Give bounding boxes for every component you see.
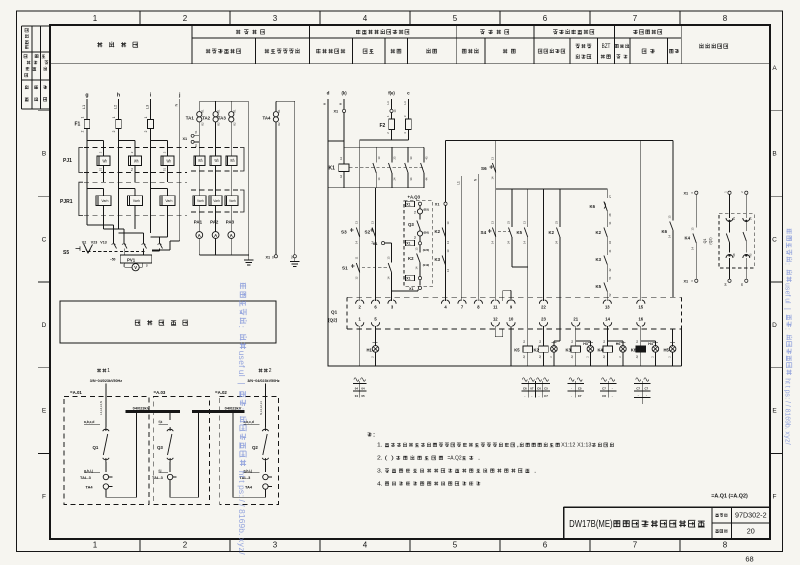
svg-text:5: 5 — [453, 14, 458, 23]
svg-text:16: 16 — [638, 316, 643, 321]
sampling meter Varh 1 — [193, 196, 206, 232]
indicator lamp H2 — [550, 343, 557, 366]
breaker terminal 5 bottom — [371, 316, 379, 326]
svg-text:C5: C5 — [578, 387, 582, 391]
svg-text:Q3: Q3 — [157, 445, 163, 450]
row tick marks right margin — [770, 111, 783, 454]
header cell 自动 — [426, 49, 436, 53]
svg-text:-: - — [524, 394, 525, 398]
svg-text:H5: H5 — [664, 347, 670, 352]
terminal X1 sampling — [183, 130, 200, 147]
S1 linkage dashed — [362, 266, 390, 268]
row tick marks left margin — [38, 111, 50, 454]
svg-text:A2: A2 — [339, 174, 343, 178]
breaker terminal 9 top — [507, 300, 515, 310]
column tick marks top strip — [140, 11, 680, 25]
svg-text:(E20): (E20) — [423, 248, 429, 252]
wires L1 N to terminals 7 8 — [457, 174, 479, 301]
label TA3 — [218, 116, 227, 121]
title cell 方案号 — [716, 529, 728, 532]
note 3 — [377, 468, 537, 474]
var-hour meter Varh phase 3 — [151, 189, 176, 230]
breaker terminal 13 top — [603, 300, 611, 310]
title value 20 — [747, 527, 755, 536]
svg-text:V23: V23 — [91, 241, 97, 245]
svg-text:-: - — [571, 394, 572, 398]
contact K1-1 — [373, 147, 381, 188]
svg-text:=A.01: =A.01 — [70, 390, 82, 395]
svg-text:K2: K2 — [277, 122, 281, 126]
relay coil K3 — [566, 339, 581, 366]
svg-text:K6: K6 — [590, 204, 596, 209]
svg-text:Wh: Wh — [166, 158, 171, 163]
svg-text:X1:13: X1:13 — [577, 443, 591, 449]
svg-text:04: 04 — [355, 394, 359, 398]
contact K1-3 — [405, 147, 413, 188]
svg-text:H3: H3 — [583, 342, 588, 346]
svg-text:3/N~04/023kV50Hz: 3/N~04/023kV50Hz — [90, 379, 122, 383]
sampling meter Varh 3 — [225, 196, 238, 232]
aux switch wire left — [723, 191, 736, 286]
svg-text:K3: K3 — [435, 257, 441, 262]
current circuit bottom bus — [199, 101, 248, 255]
label H4 — [648, 342, 653, 346]
svg-text:z: z — [237, 548, 247, 552]
breaker terminal 22 top — [539, 300, 547, 310]
svg-text:X1: X1 — [684, 191, 689, 195]
svg-text:68: 68 — [745, 555, 753, 564]
svg-text:f: f — [784, 294, 791, 296]
S5 linkage dashed — [82, 251, 145, 253]
svg-text:BZT: BZT — [602, 44, 611, 50]
svg-text:X1: X1 — [334, 110, 339, 114]
svg-text:B: B — [42, 151, 46, 158]
svg-text:X1: X1 — [406, 277, 410, 281]
svg-text:g,h,i,j: g,h,i,j — [84, 469, 93, 473]
sampling row2 dashed bracket — [191, 190, 244, 212]
wire to terminal 15 — [640, 140, 642, 301]
svg-text:(: ( — [385, 456, 388, 462]
busbar 2 04/023kV — [192, 405, 245, 411]
contact K1-4 — [421, 147, 429, 188]
header group 指示灯电路 — [633, 30, 662, 34]
terminal group C below K6 — [634, 378, 650, 404]
svg-text:K6: K6 — [662, 229, 668, 234]
svg-text:X1: X1 — [183, 137, 188, 141]
label 电源2 — [259, 368, 272, 374]
svg-text:L2: L2 — [112, 104, 117, 109]
svg-text:Wh: Wh — [134, 158, 139, 163]
svg-text:X1: X1 — [266, 255, 271, 259]
svg-text:t: t — [784, 386, 791, 388]
svg-text:51: 51 — [130, 168, 134, 172]
title block frame — [564, 507, 770, 539]
svg-text:Q1: Q1 — [331, 310, 338, 315]
svg-text:A: A — [214, 233, 217, 238]
svg-text:1: 1 — [93, 541, 98, 550]
svg-text:F: F — [773, 493, 777, 500]
terminals X1 TA4 — [266, 255, 297, 260]
pushbutton S2 — [365, 221, 376, 244]
svg-text:8: 8 — [723, 541, 728, 550]
svg-text:c: c — [407, 91, 410, 96]
title value 97D302-2 — [735, 511, 767, 520]
svg-text:51: 51 — [163, 168, 167, 172]
svg-text:X1:12: X1:12 — [561, 443, 575, 449]
svg-text:Wh: Wh — [102, 158, 107, 163]
ammeter PA2 — [212, 226, 219, 255]
labels PA1 PA2 PA3 — [194, 220, 235, 225]
busbar 1 04/023kV — [125, 405, 180, 411]
breaker terminal 2 top — [356, 300, 364, 310]
svg-text:X1: X1 — [409, 287, 414, 291]
fuse label F1 — [75, 122, 81, 128]
svg-text:15: 15 — [638, 305, 643, 310]
ammeter PA1 — [196, 226, 203, 255]
svg-text::: : — [784, 328, 791, 330]
svg-text:5: 5 — [453, 541, 458, 550]
wire terminal 10 to bus — [510, 326, 512, 366]
label H6 — [616, 342, 621, 346]
svg-text:1: 1 — [107, 368, 110, 374]
svg-text:-: - — [539, 394, 540, 398]
contact K5 aux pair — [507, 189, 528, 346]
jumper terminals 12-10 — [495, 326, 503, 337]
svg-text:PA1: PA1 — [194, 220, 203, 225]
svg-text:PA2: PA2 — [210, 220, 219, 225]
control bus left — [360, 139, 409, 141]
svg-text:2: 2 — [80, 130, 84, 132]
svg-text:L3: L3 — [403, 101, 407, 105]
fuse F1 phase L2 — [112, 116, 121, 132]
wire Q3 to busbar2 — [170, 411, 199, 497]
energy meter Wh phase 1 — [87, 141, 110, 183]
svg-text:K3: K3 — [596, 257, 602, 262]
label H5 — [664, 347, 670, 352]
svg-text:3/N~04/023kV50Hz: 3/N~04/023kV50Hz — [247, 379, 279, 383]
dashed enclosure +A.Q3 — [404, 195, 433, 287]
svg-text:51: 51 — [99, 168, 103, 172]
svg-text:X1: X1 — [435, 203, 440, 207]
voltmeter selector switch S5 — [63, 244, 93, 257]
wire S3-S1 branch — [359, 140, 361, 301]
sampling meter Wh 2 — [210, 156, 221, 196]
svg-text:1.: 1. — [377, 443, 383, 449]
svg-text:-: - — [612, 394, 613, 398]
svg-text:3: 3 — [273, 541, 278, 550]
svg-text:Q2: Q2 — [252, 445, 258, 450]
label source1 voltage — [90, 379, 122, 383]
svg-text:C7: C7 — [636, 387, 640, 391]
sampling row dashed bracket — [191, 148, 244, 172]
svg-text:t: t — [784, 382, 791, 384]
indicator lamp H3 — [586, 343, 593, 366]
svg-text:L1: L1 — [81, 104, 86, 109]
svg-text:L1,L2,L3,N: L1,L2,L3,N — [99, 401, 103, 415]
svg-text:K2: K2 — [549, 230, 555, 235]
svg-text:TA2: TA2 — [202, 116, 211, 121]
undervoltage release Q3 inside +A.Q3 — [406, 201, 430, 246]
svg-text:H4: H4 — [648, 342, 653, 346]
svg-text:23: 23 — [541, 316, 546, 321]
svg-text:TAL-3: TAL-3 — [80, 475, 92, 480]
svg-text:21: 21 — [573, 316, 578, 321]
wire S2 branch — [375, 188, 377, 301]
voltmeter PV1 meter — [123, 263, 148, 271]
svg-text:/: / — [784, 443, 791, 445]
incoming breaker Q2 — [244, 384, 269, 473]
var-hour meter Varh phase 2 — [119, 189, 143, 230]
note 1 — [377, 443, 614, 449]
label H3 — [583, 342, 588, 346]
svg-text:K1: K1 — [277, 109, 281, 113]
dashed box =A.03 — [153, 390, 209, 505]
wire terminal 1 to bus — [359, 326, 361, 366]
auxiliary switch box Q1(Q2) dashed — [719, 214, 754, 268]
wire d — [323, 99, 328, 366]
control bus right top — [446, 139, 674, 141]
wire terminal 14 to coil K4 — [607, 326, 609, 346]
svg-text:2: 2 — [183, 14, 188, 23]
svg-text:K1: K1 — [200, 109, 204, 113]
svg-text:s: s — [237, 356, 247, 360]
label Q1 (Q2) box — [328, 310, 338, 323]
svg-text::: : — [237, 326, 247, 328]
svg-text:-: - — [612, 387, 613, 391]
svg-text:13: 13 — [605, 305, 610, 310]
svg-text:97D302-2: 97D302-2 — [735, 511, 767, 520]
svg-text:6: 6 — [543, 14, 548, 23]
contact K1-2 — [389, 147, 397, 188]
svg-text:(k): (k) — [342, 91, 348, 96]
svg-text:07: 07 — [530, 387, 534, 391]
svg-text:S6: S6 — [481, 166, 487, 171]
svg-text:PV1: PV1 — [127, 257, 136, 262]
svg-text:4: 4 — [363, 541, 368, 550]
svg-text:K4: K4 — [598, 347, 604, 352]
main circuit scheme box 主电路方案 — [60, 301, 276, 343]
node letters d (k) f(e) c — [327, 91, 411, 96]
svg-text:N,L3,L2,L1: N,L3,L2,L1 — [259, 401, 263, 415]
row letters right A-F — [772, 65, 777, 500]
lamp H4 feed — [641, 341, 656, 347]
revision table — [22, 26, 51, 109]
svg-text:d: d — [327, 91, 330, 96]
terminal group C below K4 — [600, 378, 616, 398]
voltage merge wires — [87, 225, 180, 250]
svg-text:1: 1 — [80, 116, 84, 118]
label PJR1 — [60, 199, 73, 205]
control circuit bottom bus — [327, 329, 681, 366]
terminal group C below K3 — [568, 378, 584, 398]
svg-text:=A.Q1 (=A.Q2): =A.Q1 (=A.Q2) — [711, 493, 748, 499]
S4 linkage dashed — [498, 231, 510, 233]
breaker terminal 11 top — [491, 300, 499, 310]
wire S6 branch — [495, 140, 497, 301]
column numbers top 1-8 — [93, 14, 728, 23]
row letters left B-F — [42, 151, 47, 501]
contact chain K6 K2 K3 K5 — [590, 189, 612, 301]
label PJ1 — [63, 158, 72, 164]
svg-text:Wh: Wh — [198, 158, 203, 163]
ground current circuit — [244, 255, 254, 265]
header table grid — [50, 25, 770, 64]
label source2 voltage — [247, 379, 279, 383]
circuit breaker terminal box Q1(Q2) dashed — [347, 297, 681, 329]
svg-text:/: / — [784, 405, 791, 407]
column tick marks bottom strip — [140, 539, 680, 552]
contact K6 right — [662, 140, 674, 297]
svg-text:H1: H1 — [367, 348, 373, 353]
wire terminal 21 to coil K3 — [575, 326, 577, 346]
terminal X1 K4 bottom — [684, 279, 698, 283]
svg-text:10: 10 — [509, 316, 514, 321]
breaker terminal 16 bottom — [637, 316, 645, 326]
svg-text:D: D — [772, 322, 777, 329]
svg-text:TA4: TA4 — [263, 116, 272, 121]
svg-text:7: 7 — [633, 14, 638, 23]
wire bus-drop to terminal 4 with X1 — [435, 140, 447, 301]
contact K2 mid — [549, 189, 560, 347]
svg-text::: : — [237, 495, 247, 497]
svg-text:K1: K1 — [232, 109, 236, 113]
header cell 电容补偿取样 — [265, 49, 300, 53]
svg-text:h: h — [117, 93, 120, 99]
terminal group X4 below H1 — [353, 378, 366, 398]
aux switch wire right — [740, 191, 753, 286]
header cell 过电流及指示 — [576, 44, 592, 59]
svg-text:6: 6 — [543, 541, 548, 550]
svg-text:11: 11 — [493, 305, 498, 310]
svg-text:V13: V13 — [100, 241, 106, 245]
wire to terminal 22 — [543, 189, 545, 301]
sampling meter Wh 3 — [226, 156, 237, 196]
svg-text:K5: K5 — [596, 284, 602, 289]
svg-text:F1: F1 — [75, 122, 81, 128]
breaker terminal 8 top — [474, 300, 482, 310]
svg-text:PJ1: PJ1 — [63, 158, 72, 164]
breaker terminal 21 bottom — [572, 316, 580, 326]
svg-text:C5: C5 — [544, 387, 548, 391]
svg-text:=A.02: =A.02 — [215, 390, 227, 395]
label L3 — [144, 104, 149, 109]
svg-text:2: 2 — [144, 130, 148, 132]
header group 保护及控制电路 — [553, 30, 594, 34]
svg-text:f,k: f,k — [159, 420, 163, 424]
relay coil K4 — [598, 339, 613, 366]
svg-text:1: 1 — [93, 14, 98, 23]
svg-text:H6: H6 — [616, 342, 621, 346]
svg-text:C7: C7 — [644, 387, 648, 391]
watermark center — [237, 283, 247, 556]
wire f(e) and fuse F2 — [380, 99, 397, 140]
meter row PJR1 dashed bracket — [79, 182, 187, 215]
node letters g h i j — [85, 93, 181, 99]
svg-text:C8: C8 — [602, 394, 606, 398]
svg-text:a,b,c,d: a,b,c,d — [84, 420, 94, 424]
voltmeter PV1 box — [110, 249, 160, 264]
svg-text:12: 12 — [493, 316, 498, 321]
current transformer TA4 circuit — [273, 101, 295, 254]
lamp H5 branch — [672, 329, 674, 347]
svg-text:L3: L3 — [144, 104, 149, 109]
svg-text:F: F — [42, 493, 46, 500]
sampling meter Varh 2 — [209, 196, 222, 232]
pushbutton S3 — [341, 221, 360, 244]
svg-text:+A.Q3: +A.Q3 — [408, 195, 421, 200]
svg-text:a,b,c,d: a,b,c,d — [244, 420, 254, 424]
meter row PJ1 dashed bracket — [79, 148, 187, 173]
terminal X1 K4 branch — [684, 191, 698, 227]
ground TA4 — [290, 258, 300, 266]
title text DW17B(ME)型断路器进线柜电路图 — [569, 519, 705, 530]
svg-text:20: 20 — [747, 527, 755, 536]
wire terminal 16 to coil K6 — [640, 326, 642, 346]
svg-text::: : — [784, 263, 791, 265]
breaker terminal 1 bottom — [356, 316, 364, 326]
header cell 电压回路 — [97, 42, 138, 47]
svg-text:C7: C7 — [602, 387, 606, 391]
svg-text:s: s — [237, 490, 247, 494]
svg-text:): ) — [391, 456, 394, 462]
svg-text:-: - — [638, 394, 639, 398]
relay coil K6 — [631, 339, 646, 366]
wire phase L3 lower — [150, 129, 152, 234]
breaker terminal 6 top — [371, 300, 379, 310]
svg-text:f,l: f,l — [159, 469, 162, 473]
svg-text:(B5): (B5) — [424, 208, 430, 212]
current transformer TA4 on Q1 — [86, 484, 113, 490]
current transformer TA4 on Q2 — [245, 484, 272, 490]
switch S4 — [481, 221, 496, 244]
svg-text:Varh: Varh — [165, 199, 172, 203]
svg-text:S2: S2 — [365, 230, 371, 235]
svg-text:4.: 4. — [377, 481, 383, 487]
title cell 图集号 — [716, 514, 728, 517]
svg-text:~50: ~50 — [110, 258, 116, 262]
svg-text:2: 2 — [183, 541, 188, 550]
contact K3 right column — [435, 249, 451, 272]
breaker terminal 14 bottom — [604, 316, 612, 326]
svg-text:|: | — [784, 308, 791, 310]
svg-text:K2: K2 — [200, 122, 204, 126]
header group 控制电源及合闸电路 — [356, 30, 409, 34]
svg-text:X1: X1 — [684, 280, 689, 284]
svg-text:l: l — [237, 375, 247, 377]
svg-text:14: 14 — [605, 316, 610, 321]
svg-text:05: 05 — [361, 394, 365, 398]
svg-text:3: 3 — [273, 14, 278, 23]
breaker terminal 3 top — [388, 300, 396, 310]
svg-text:Varh: Varh — [229, 199, 236, 203]
svg-text:(Q2): (Q2) — [328, 318, 338, 323]
incoming breaker Q1 — [84, 384, 109, 473]
svg-text:X1: X1 — [406, 242, 410, 246]
wire to coil K5 — [527, 343, 529, 346]
svg-text:K2: K2 — [232, 122, 236, 126]
svg-text:(Q2): (Q2) — [708, 237, 712, 244]
current transformer TAL-3 on Q3 — [152, 474, 177, 480]
svg-text:8: 8 — [723, 14, 728, 23]
header cell 短路及指示 — [538, 49, 565, 53]
svg-text:X1: X1 — [373, 242, 378, 246]
ammeter PA3 — [228, 226, 235, 255]
breaker terminal 12 bottom — [491, 316, 499, 326]
svg-text:A: A — [772, 65, 777, 72]
terminal group C below K2 — [521, 378, 550, 398]
svg-text:DW17B(ME): DW17B(ME) — [569, 519, 612, 530]
svg-text:04/023kV: 04/023kV — [133, 405, 150, 410]
